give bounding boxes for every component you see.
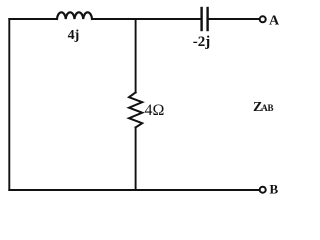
terminal A circle [260, 16, 266, 22]
terminal B circle [260, 187, 266, 193]
svg-text:4Ω: 4Ω [145, 102, 165, 119]
wire junction to capacitor [136, 18, 201, 20]
wire inductor to junction [92, 18, 136, 20]
resistor R1 4 ohm zigzag [129, 92, 142, 127]
wire capacitor to terminal A [209, 18, 260, 20]
wire middle branch lower [135, 127, 137, 190]
wire middle branch upper [135, 19, 137, 92]
svg-text:B: B [270, 182, 279, 197]
capacitor C1 -2j plates [200, 8, 202, 30]
wire bottom [9, 189, 259, 191]
svg-text:A: A [269, 14, 280, 29]
inductor L1 4j [57, 12, 92, 19]
wire left vertical [8, 19, 10, 190]
svg-text:4j: 4j [68, 28, 80, 43]
wire top-left segment [9, 18, 57, 20]
svg-text:-2j: -2j [193, 34, 211, 50]
svg-text:AB: AB [261, 103, 273, 113]
